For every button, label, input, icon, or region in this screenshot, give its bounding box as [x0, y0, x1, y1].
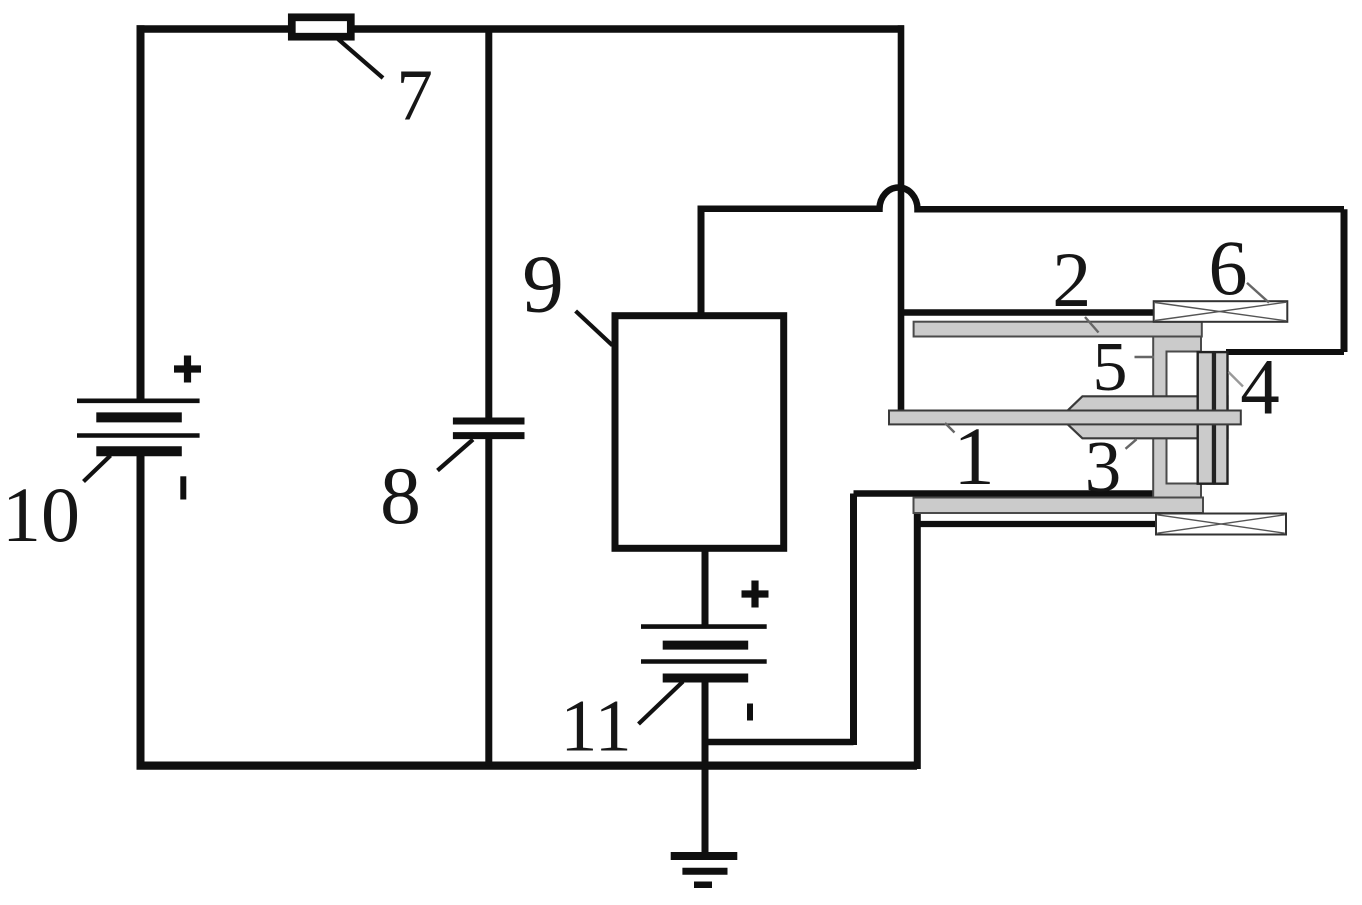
- wire: battery 11 negative stem down to ground: [702, 680, 709, 853]
- coil 6 bottom (box with X): [1156, 514, 1286, 535]
- battery 11: [641, 627, 767, 678]
- electrode 2 (top plate): [914, 322, 1202, 337]
- battery 11 plus sign: [742, 581, 769, 608]
- leader line 1: [945, 423, 955, 433]
- wire: top horizontal from battery 10 to node: [137, 25, 905, 33]
- wire: right edge vertical: [1341, 209, 1348, 352]
- wire: capacitor 8 lower branch: [485, 437, 492, 766]
- wire: feed line to bottom coil 6: [917, 521, 1157, 527]
- box 9 (power processing unit): [615, 316, 784, 549]
- wire: box 9 top lead: [698, 206, 705, 313]
- wire: box 9 bottom lead: [702, 548, 709, 628]
- svg-text:1: 1: [953, 410, 995, 502]
- battery 10: [77, 401, 200, 452]
- capacitor C8 plates: [453, 421, 525, 436]
- svg-text:10: 10: [2, 471, 80, 558]
- wire: horizontal line to bracket 5: [854, 490, 1156, 497]
- needle electrode 1 with center shaft: [889, 411, 1241, 425]
- battery 10 plus sign: [174, 356, 201, 383]
- svg-text:3: 3: [1085, 426, 1122, 507]
- nozzle body 3 (chamfered block): [1068, 396, 1228, 438]
- wire: horizontal into accel grid 4: [1226, 349, 1344, 355]
- svg-text:11: 11: [560, 686, 631, 768]
- leader line 3: [1126, 439, 1137, 449]
- svg-text:5: 5: [1093, 329, 1128, 406]
- leader line 6: [1247, 283, 1269, 303]
- resistor R7: [292, 17, 351, 36]
- wire: vertical riser to bottom coil line: [914, 511, 921, 769]
- bracket 5 (C-shaped holder): [1153, 337, 1201, 499]
- leader line 11: [639, 682, 684, 725]
- leader line 9: [576, 311, 613, 345]
- svg-text:9: 9: [522, 238, 564, 330]
- battery 10 minus tick: [180, 476, 186, 499]
- leader line 5: [1135, 356, 1155, 358]
- svg-text:4: 4: [1240, 345, 1280, 432]
- accel grid 4 right bar: [1215, 352, 1228, 484]
- wire: vertical from top bus down to needle electrode 1: [898, 25, 905, 412]
- svg-text:6: 6: [1209, 224, 1248, 311]
- electrode bottom plate (mirror of 2): [914, 498, 1204, 514]
- leader line 4: [1229, 372, 1244, 387]
- leader line 10: [84, 456, 111, 482]
- wire: bottom horizontal bus: [137, 761, 918, 769]
- accel grid 4 left bar: [1198, 352, 1213, 484]
- svg-text:7: 7: [396, 55, 433, 136]
- svg-text:2: 2: [1052, 236, 1091, 323]
- wire: horizontal with crossover hop to right loop: [701, 187, 1344, 209]
- wire: feed line to top coil 6: [901, 309, 1155, 316]
- leader line 8: [438, 440, 474, 471]
- leader line 7: [338, 39, 383, 78]
- wire: capacitor 8 upper branch: [485, 29, 492, 419]
- wire: left vertical upper (battery 10 positive lead): [137, 25, 145, 400]
- battery 11 minus tick: [747, 704, 753, 721]
- wire: vertical riser to extractor line: [850, 494, 857, 746]
- wire: battery 11 negative horizontal: [705, 739, 854, 746]
- leader line 2: [1085, 317, 1099, 333]
- svg-text:8: 8: [380, 450, 421, 541]
- ground: [671, 856, 738, 885]
- wire: left vertical lower (battery 10 negative lead): [137, 450, 145, 770]
- coil 6 top (box with X): [1154, 301, 1288, 322]
